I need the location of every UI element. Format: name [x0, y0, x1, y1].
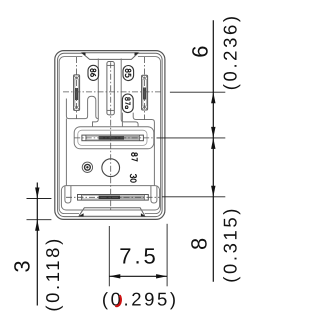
svg-text:(0.295): (0.295)	[102, 289, 179, 310]
relay case inner outline	[59, 57, 160, 214]
pin 87a slot outline	[107, 62, 114, 115]
arrow left	[109, 274, 120, 278]
dimension extension line C right	[162, 196, 225, 198]
bottom notch recess	[78, 208, 146, 217]
interior right wall from 87a	[121, 113, 123, 127]
centerline horizontal B (pin 87)	[74, 137, 154, 139]
dimension extension line A right	[170, 91, 225, 93]
interior center column right	[121, 59, 138, 127]
red mark on 0	[115, 295, 120, 306]
big circle	[102, 159, 120, 177]
pin 86 (left vertical blade)	[74, 75, 80, 111]
label oval 85	[123, 66, 134, 81]
pin 85 (right vertical blade)	[142, 75, 148, 110]
bottom dimension line	[109, 275, 167, 277]
label 87	[132, 153, 138, 161]
svg-text:6: 6	[188, 45, 213, 57]
relay case outer outline	[55, 51, 165, 220]
interior left wall lower	[65, 119, 67, 186]
arrow down at B	[211, 127, 215, 138]
dimension extension line B right	[157, 137, 226, 139]
centerline vertical main	[110, 62, 112, 211]
arrow up at B	[211, 138, 215, 149]
pin 30 (bottom horizontal blade)	[78, 195, 149, 201]
middle plateau outer	[74, 127, 154, 149]
svg-text:7.5: 7.5	[119, 244, 159, 269]
svg-text:(0.236): (0.236)	[219, 13, 240, 90]
rivet circles	[82, 162, 92, 172]
dimension line left vertical	[36, 183, 38, 306]
dimension line right vertical	[212, 20, 214, 282]
relay case middle outline	[58, 53, 163, 216]
arrow down at 198.5	[35, 188, 39, 199]
middle plateau inner recess	[78, 130, 147, 145]
interior left wall, shelf and U-slot	[66, 96, 98, 118]
pin 87 (wide horizontal blade)	[82, 135, 143, 141]
bottom plateau	[61, 186, 159, 210]
label 30	[130, 174, 136, 182]
svg-text:(0.315): (0.315)	[219, 206, 240, 283]
centerline pin85	[144, 57, 146, 120]
top notch recess	[81, 53, 140, 61]
centerline horizontal C (pin 30)	[66, 196, 160, 198]
svg-text:(0.118): (0.118)	[42, 236, 63, 311]
svg-text:3: 3	[10, 260, 35, 272]
bottom plateau left U slot	[65, 186, 71, 203]
bottom plateau right U slot	[151, 186, 157, 203]
arrow up at A	[211, 92, 215, 103]
label oval 87a	[122, 94, 133, 113]
bottom dimension extension lines	[108, 226, 110, 286]
centerline pin86	[76, 57, 78, 119]
interior center column left	[93, 59, 99, 127]
arrow down at C	[211, 186, 215, 197]
svg-text:8: 8	[187, 238, 212, 250]
label oval 86	[88, 65, 99, 80]
centerline horizontal A (coil pins)	[63, 91, 161, 93]
arrow up at 219.7	[35, 220, 39, 231]
arrow right	[156, 274, 167, 278]
dimension extension lines left	[27, 198, 52, 200]
